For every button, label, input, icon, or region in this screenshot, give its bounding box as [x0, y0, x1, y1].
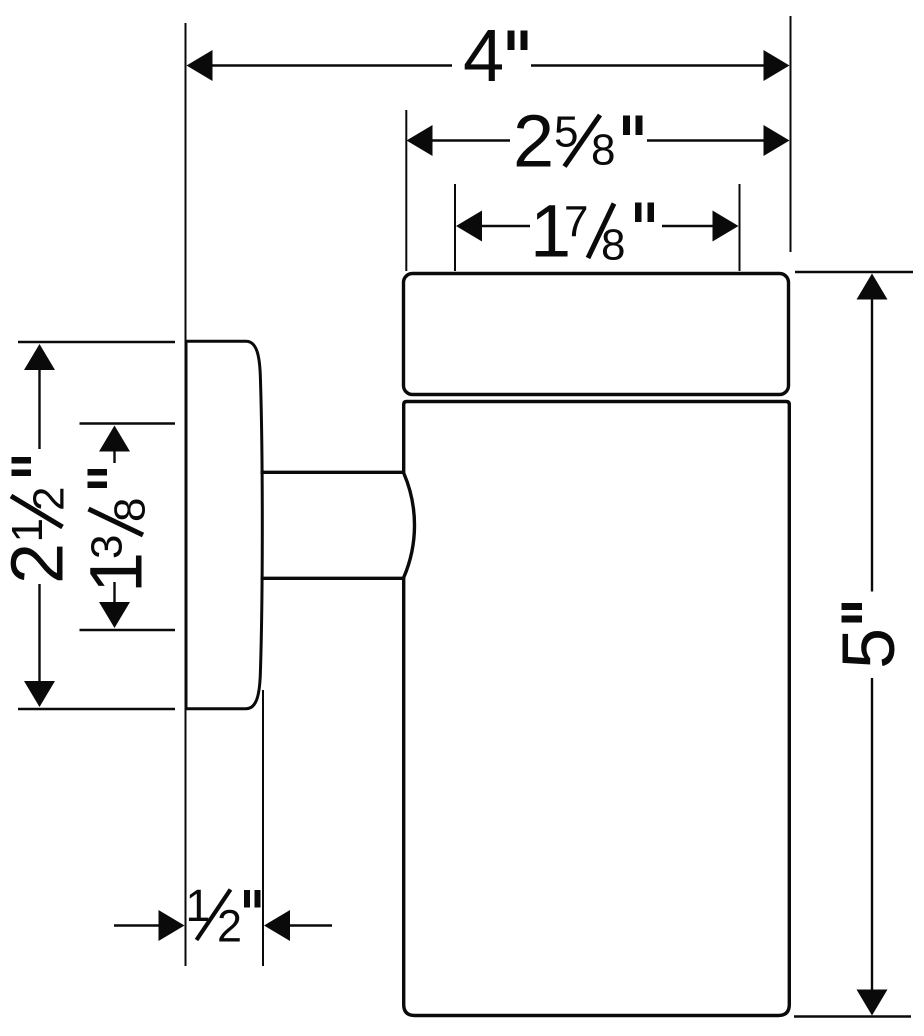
- svg-text:2: 2: [0, 543, 79, 584]
- dimension 4in: left arrowhead: [187, 50, 213, 81]
- svg-text:7: 7: [564, 198, 588, 247]
- dimension 2 1/2in: line upper segment: [38, 368, 40, 449]
- svg-text:5: 5: [827, 628, 910, 669]
- extension line right for 1 7/8in: [739, 184, 741, 271]
- dimension 1 7/8in: line left segment: [480, 225, 530, 227]
- wall extension line (left, full height): [185, 23, 187, 966]
- dimension 2 1/2in: top tick: [18, 341, 175, 343]
- dimension 1/2in: text: [186, 880, 261, 952]
- dimension 2 1/2in: up arrowhead: [24, 344, 55, 370]
- dimension 2 5/8in: line left segment: [430, 139, 510, 141]
- extension line right for 1/2in: [262, 690, 264, 966]
- dimension 2 1/2in: down arrowhead: [24, 681, 55, 707]
- dimension 4in: line left segment: [210, 64, 452, 66]
- dimension 5in: rotated text: [827, 603, 910, 669]
- stem top line: [261, 471, 404, 474]
- svg-text:8: 8: [591, 126, 615, 175]
- svg-text:3: 3: [83, 535, 132, 559]
- dimension 5in: line upper segment: [871, 298, 873, 592]
- dimension 1/2in: right tail line: [289, 924, 332, 926]
- dimension 2 1/2in: line lower segment: [38, 584, 40, 683]
- dimension 2 5/8in: line right segment: [647, 139, 766, 141]
- dimension 1/2in: left tail line: [114, 924, 160, 926]
- dimension 1/2in: right arrowhead (pointing left): [264, 910, 290, 941]
- dimension 2 1/2in: bottom tick: [18, 708, 175, 710]
- dimension 1 3/8in: bottom tick: [80, 629, 176, 631]
- dimension 2 5/8in: left arrowhead: [407, 125, 433, 156]
- dimension 2 5/8in: text: [513, 100, 643, 183]
- dimension 2 1/2in: rotated text: [0, 457, 79, 584]
- dimension 1 7/8in: right arrowhead: [713, 211, 739, 242]
- dimension 1 3/8in: top tick: [80, 422, 176, 424]
- dimension 1 3/8in: rotated text: [75, 469, 158, 593]
- holder ring (top plate, side view): [404, 274, 789, 395]
- stem bottom line: [261, 577, 404, 580]
- dimension 1 3/8in: line lower segment: [113, 582, 115, 604]
- cup body (tumbler, side view) with stem socket bulge on left: [404, 402, 790, 1016]
- dimension 5in: top tick: [795, 271, 913, 273]
- extension line left for 1 7/8in: [454, 184, 456, 271]
- dimension 2 5/8in: right arrowhead: [764, 125, 790, 156]
- svg-text:8: 8: [601, 221, 625, 270]
- svg-text:2: 2: [25, 487, 74, 511]
- dimension 5in: up arrowhead: [857, 274, 888, 300]
- wall plate (side view): [186, 341, 262, 708]
- svg-text:4: 4: [463, 14, 504, 97]
- dimension 5in: line lower segment: [871, 678, 873, 991]
- dimension 4in: right arrowhead: [764, 50, 790, 81]
- dimension 1 3/8in: line upper segment: [113, 450, 115, 463]
- svg-text:2: 2: [513, 100, 554, 183]
- dimension 4in: text: [463, 14, 528, 97]
- dimension 4in: line right segment: [531, 64, 766, 66]
- svg-text:8: 8: [106, 498, 155, 522]
- dimension 1 7/8in: left arrowhead: [456, 211, 482, 242]
- dimension 1 7/8in: line right segment: [662, 225, 714, 227]
- dimension 5in: bottom tick: [794, 1015, 911, 1017]
- svg-text:1: 1: [3, 518, 52, 542]
- dimension 5in: down arrowhead: [857, 990, 888, 1016]
- dimension 1 3/8in: up arrowhead: [99, 426, 130, 452]
- dimension 1 3/8in: down arrowhead: [99, 602, 130, 628]
- extension line right (for 4in and 2 5/8in dims): [790, 16, 792, 252]
- extension line left for 2 5/8in: [405, 110, 407, 271]
- dimension 1 7/8in: text: [530, 190, 654, 273]
- dimension 1/2in: left arrowhead (pointing right): [159, 910, 185, 941]
- svg-text:2: 2: [217, 901, 242, 952]
